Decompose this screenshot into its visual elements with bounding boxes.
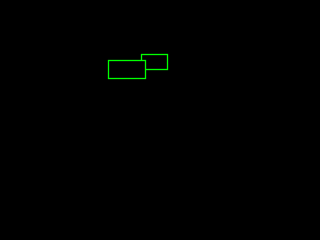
rectangle 1 (large, front window)	[109, 61, 146, 79]
rectangle 2 (small, back window)	[142, 55, 168, 70]
